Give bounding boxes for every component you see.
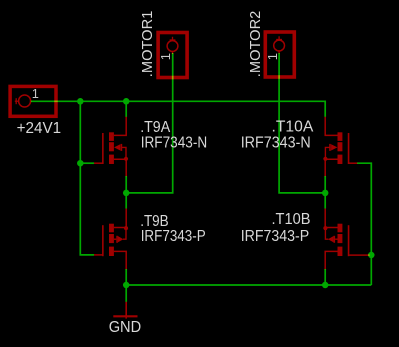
- svg-text:.T10B: .T10B: [272, 211, 311, 228]
- svg-text:.MOTOR1: .MOTOR1: [140, 11, 156, 78]
- svg-text:IRF7343-N: IRF7343-N: [241, 135, 311, 152]
- svg-text:IRF7343-P: IRF7343-P: [141, 228, 206, 245]
- svg-text:.MOTOR2: .MOTOR2: [248, 11, 264, 78]
- svg-text:IRF7343-P: IRF7343-P: [241, 228, 310, 245]
- svg-text:1: 1: [265, 53, 280, 60]
- svg-text:.T10A: .T10A: [272, 119, 314, 136]
- svg-text:+24V1: +24V1: [17, 120, 62, 137]
- svg-text:1: 1: [158, 53, 173, 60]
- svg-text:1: 1: [32, 86, 39, 101]
- svg-text:.T9A: .T9A: [140, 119, 170, 136]
- svg-text:IRF7343-N: IRF7343-N: [141, 135, 208, 152]
- svg-text:GND: GND: [109, 319, 142, 336]
